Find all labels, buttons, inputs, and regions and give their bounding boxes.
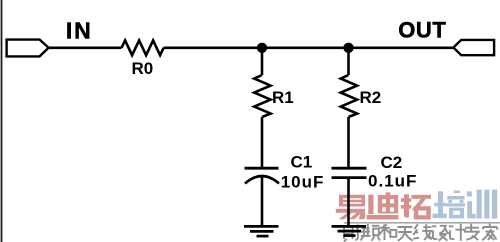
char 培 (blue) xyxy=(433,191,465,219)
node A junction dot xyxy=(257,43,267,53)
svg-text:OUT: OUT xyxy=(398,18,446,43)
天 xyxy=(397,226,412,240)
capacitor C2 xyxy=(332,167,367,170)
svg-text:10uF: 10uF xyxy=(281,172,325,191)
capacitor C1 (polarized) xyxy=(245,167,279,170)
和 xyxy=(379,224,396,240)
char 训 (blue) xyxy=(467,190,498,219)
OUT connector tag xyxy=(453,40,494,55)
IN connector tag xyxy=(7,40,49,57)
家 xyxy=(482,224,497,241)
watermark logo 易迪拓培训 xyxy=(336,190,500,242)
char 迪 (red) xyxy=(367,192,399,219)
设 xyxy=(432,226,449,241)
wire IN to R0 xyxy=(49,46,122,49)
wire C2 to ground xyxy=(347,178,350,226)
resistor R1 xyxy=(254,75,270,117)
计 xyxy=(449,224,466,241)
wire R2 to C2 xyxy=(347,117,350,168)
wire C1 to ground xyxy=(261,177,264,227)
wire R0 to OUT xyxy=(164,46,454,49)
射 xyxy=(344,225,360,242)
wire R1 to C1 xyxy=(261,117,264,168)
node B junction dot xyxy=(343,43,353,53)
char 拓 (red) xyxy=(401,194,431,219)
resistor R2 xyxy=(341,75,357,117)
wire node B to R2 xyxy=(347,48,350,75)
svg-text:R1: R1 xyxy=(272,88,294,107)
ground (C2) xyxy=(332,226,367,235)
线 xyxy=(413,224,432,240)
svg-text:R0: R0 xyxy=(132,59,154,78)
频 xyxy=(361,224,380,241)
resistor R0 xyxy=(122,40,164,55)
wire node A to R1 xyxy=(261,48,264,75)
svg-text:C2: C2 xyxy=(381,153,403,172)
svg-text:0.1uF: 0.1uF xyxy=(368,171,417,190)
专 xyxy=(464,224,480,240)
char 易 (red) xyxy=(336,195,365,220)
left border line xyxy=(1,0,3,242)
watermark underline xyxy=(344,222,500,224)
svg-text:R2: R2 xyxy=(360,88,382,107)
ground (C1) xyxy=(244,226,279,236)
watermark slogan 射频和天线设计专家 xyxy=(344,224,497,242)
svg-text:IN: IN xyxy=(66,18,93,44)
svg-text:C1: C1 xyxy=(291,153,313,172)
